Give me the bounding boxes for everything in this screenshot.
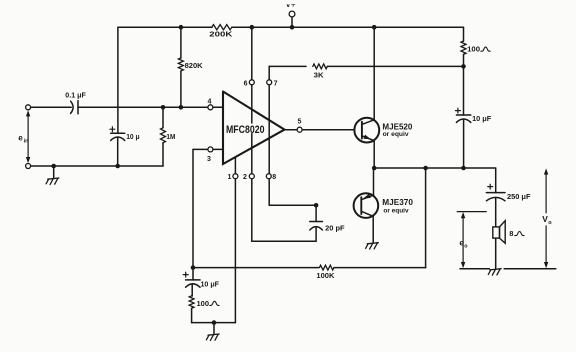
svg-text:in: in xyxy=(24,139,29,145)
svg-text:MFC8020: MFC8020 xyxy=(226,124,265,136)
svg-text:o: o xyxy=(548,220,552,226)
svg-text:820K: 820K xyxy=(185,61,204,70)
svg-text:6: 6 xyxy=(244,81,248,88)
svg-text:2: 2 xyxy=(243,174,247,181)
svg-text:8: 8 xyxy=(509,229,513,238)
svg-text:10 μF: 10 μF xyxy=(472,114,492,123)
svg-text:10 μ: 10 μ xyxy=(126,132,140,141)
svg-text:5: 5 xyxy=(297,118,301,125)
svg-text:250 μF: 250 μF xyxy=(507,192,531,201)
svg-text:3K: 3K xyxy=(314,71,325,80)
svg-text:100K: 100K xyxy=(316,271,335,280)
svg-text:3: 3 xyxy=(207,156,211,163)
svg-text:0.1 μF: 0.1 μF xyxy=(65,90,86,99)
svg-text:or equiv: or equiv xyxy=(383,131,409,138)
svg-text:e: e xyxy=(18,134,23,143)
svg-text:100: 100 xyxy=(467,45,480,54)
svg-text:MJE370: MJE370 xyxy=(382,198,413,207)
svg-text:or equiv: or equiv xyxy=(383,207,409,214)
svg-text:1: 1 xyxy=(227,174,231,181)
svg-text:200K: 200K xyxy=(209,30,233,39)
svg-text:8: 8 xyxy=(272,174,276,181)
svg-text:7: 7 xyxy=(274,81,278,88)
svg-text:1M: 1M xyxy=(166,132,175,141)
svg-text:20 pF: 20 pF xyxy=(325,223,345,232)
svg-text:4: 4 xyxy=(208,98,212,105)
svg-text:10 μF: 10 μF xyxy=(201,279,220,288)
svg-text:100: 100 xyxy=(197,299,210,308)
